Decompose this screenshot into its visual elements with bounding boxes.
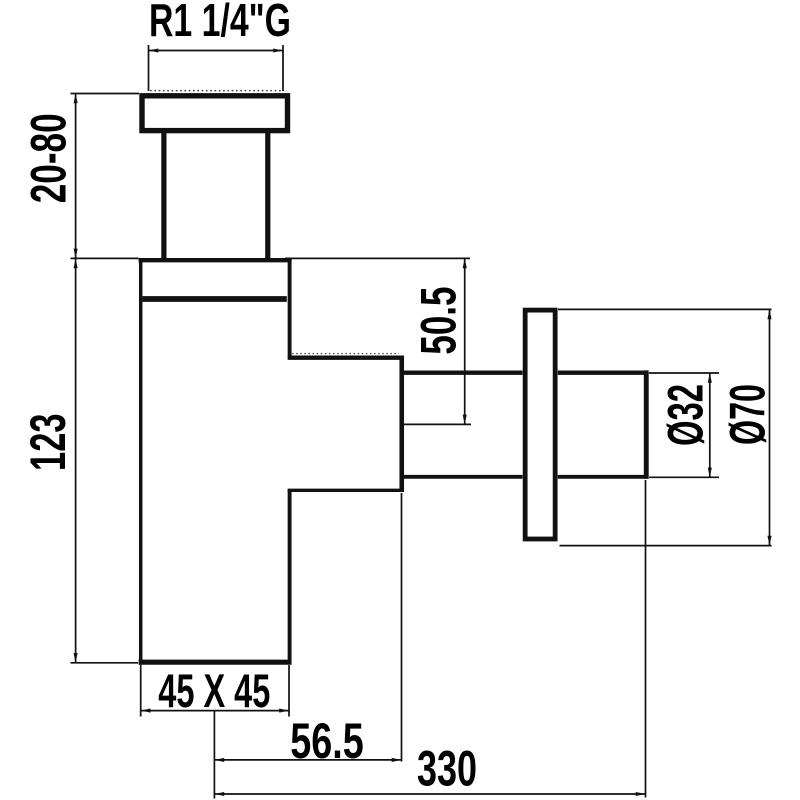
- outlet pipe: [404, 373, 649, 477]
- top nut flange: [142, 96, 288, 131]
- svg-text:Ø32: Ø32: [658, 384, 714, 446]
- svg-text:R1 1/4"G: R1 1/4"G: [149, 0, 291, 46]
- outlet neck: [288, 356, 404, 492]
- dim diameter 70: [558, 309, 776, 545]
- svg-text:45 X 45: 45 X 45: [158, 664, 270, 717]
- dim 330: [214, 480, 645, 798]
- thread hatch above neck: [292, 353, 399, 355]
- trap body: [139, 258, 292, 665]
- wall flange: [525, 310, 555, 539]
- dim 56.5: [214, 493, 401, 799]
- svg-text:50.5: 50.5: [411, 287, 467, 355]
- svg-text:20-80: 20-80: [21, 113, 77, 203]
- dim 45 X 45: [141, 664, 289, 717]
- dim diameter 32: [649, 373, 719, 477]
- dim 20-80: [21, 94, 140, 259]
- compression seal band: [143, 296, 287, 302]
- inlet pipe: [164, 131, 268, 259]
- outlet pipe end: [644, 370, 649, 478]
- dim 123: [20, 258, 138, 662]
- svg-text:330: 330: [417, 740, 477, 796]
- dim 50.5: [285, 258, 471, 424]
- svg-text:56.5: 56.5: [290, 713, 364, 769]
- thread hatch above nut: [150, 90, 282, 92]
- svg-text:Ø70: Ø70: [720, 384, 776, 445]
- svg-text:123: 123: [20, 413, 76, 471]
- dim R1 1/4"G: [149, 0, 292, 91]
